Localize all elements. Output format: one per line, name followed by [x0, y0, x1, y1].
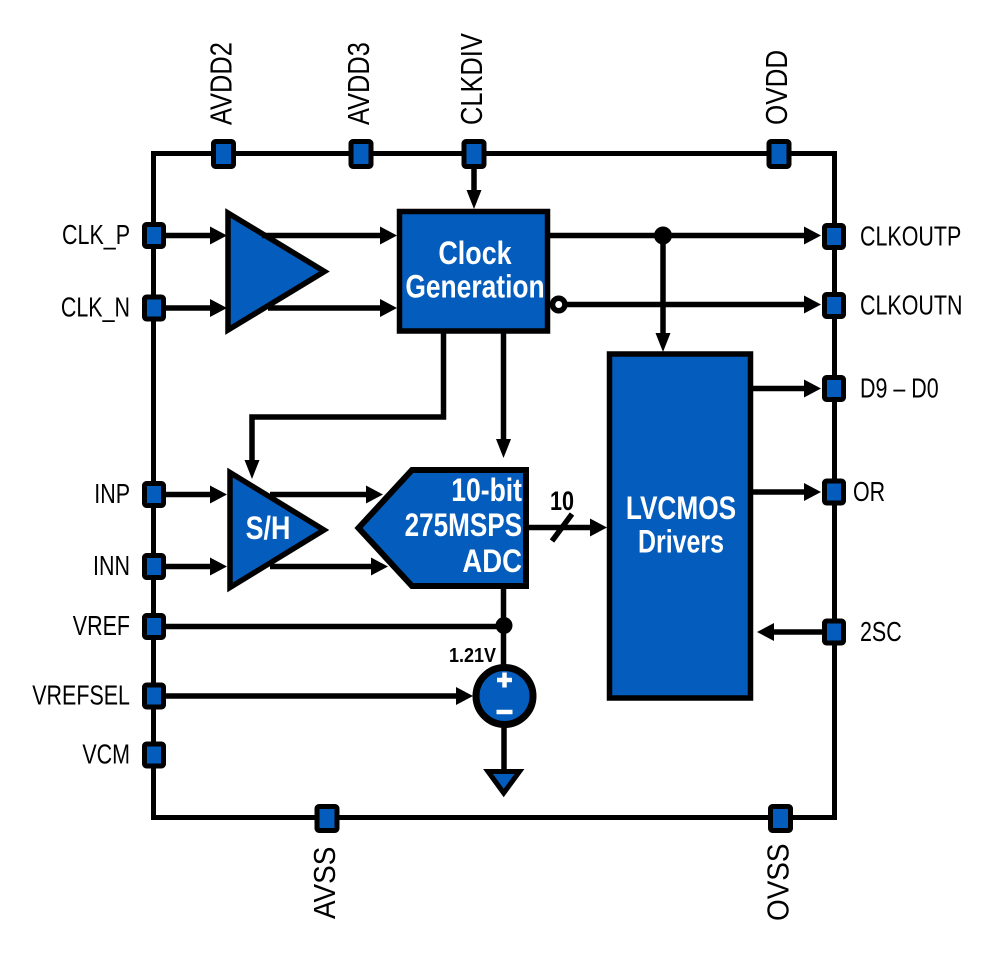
- S/H amplifier triangle: [230, 473, 324, 588]
- label 275MSPS: [405, 509, 522, 544]
- block LVCMOS Drivers: [610, 354, 751, 698]
- label OR: [853, 478, 885, 508]
- svg-text:OR: OR: [853, 478, 885, 508]
- svg-text:VREF: VREF: [73, 612, 130, 642]
- label INP: [94, 480, 130, 510]
- junction dot VREF: [496, 617, 513, 634]
- wire S/H to ADC (lower): [270, 558, 388, 576]
- wire reference source to ground: [501, 725, 507, 772]
- svg-text:D9 – D0: D9 – D0: [860, 374, 939, 404]
- wire 2SC to LVCMOS: [757, 623, 822, 641]
- pin CLKOUTN: [825, 295, 844, 317]
- wire bubble to CLKOUTN: [567, 296, 821, 314]
- label 2SC: [860, 618, 902, 648]
- wire junction to LVCMOS drivers: [656, 236, 671, 353]
- label CLK_P: [62, 221, 130, 251]
- svg-text:VCM: VCM: [82, 740, 130, 770]
- label CLKOUTP: [860, 222, 961, 252]
- svg-text:OVSS: OVSS: [761, 843, 796, 921]
- svg-text:AVSS: AVSS: [308, 847, 343, 919]
- wire LVCMOS to D9-D0: [751, 380, 821, 398]
- label ADC: [462, 544, 522, 579]
- svg-text:10: 10: [550, 487, 574, 517]
- label 1.21V: [449, 645, 496, 667]
- junction dot CLKOUTP: [654, 227, 672, 245]
- minus sign: [497, 710, 513, 715]
- svg-text:Generation: Generation: [405, 269, 544, 305]
- pin AVSS: [317, 807, 337, 831]
- bus slash: [552, 514, 572, 541]
- label S/H: [246, 511, 291, 547]
- wire clock generation to ADC (right drop): [496, 333, 511, 458]
- label CLK_N: [61, 293, 130, 323]
- pin VREF: [145, 616, 164, 638]
- label VREF: [73, 612, 130, 642]
- label CLKDIV: [455, 33, 490, 125]
- label INN: [93, 552, 130, 582]
- block Clock Generation: [400, 212, 548, 332]
- wire buffer to clock generation (upper): [262, 227, 397, 245]
- label Generation: [405, 269, 544, 305]
- bus wire ADC to LVCMOS drivers: [524, 519, 607, 537]
- block 10-bit 275MSPS ADC (chevron): [359, 470, 527, 586]
- svg-text:Drivers: Drivers: [638, 525, 724, 561]
- label AVDD2: [204, 42, 239, 125]
- label LVCMOS: [626, 492, 736, 527]
- pin CLKOUTP: [825, 226, 844, 248]
- pin 2SC: [825, 621, 844, 643]
- label Drivers: [638, 525, 724, 561]
- label OVDD: [760, 50, 795, 125]
- inverter bubble on clock generation output: [553, 298, 565, 310]
- svg-text:10-bit: 10-bit: [451, 473, 522, 509]
- svg-text:2SC: 2SC: [860, 618, 902, 648]
- pin OVDD: [769, 142, 789, 167]
- wire ADC bottom to reference source: [501, 586, 507, 668]
- label Clock: [438, 236, 512, 272]
- wire buffer to clock generation (lower): [268, 299, 397, 317]
- wire CLKDIV into clock generation: [467, 156, 482, 209]
- pin OR: [825, 481, 844, 503]
- label 10 (bus width): [550, 487, 574, 517]
- plus sign: [497, 673, 512, 688]
- svg-text:CLKOUTN: CLKOUTN: [860, 291, 962, 321]
- label AVSS: [308, 847, 343, 919]
- svg-text:CLKDIV: CLKDIV: [455, 33, 490, 125]
- svg-text:VREFSEL: VREFSEL: [32, 681, 130, 711]
- ground symbol: [488, 772, 520, 794]
- pin AVDD3: [351, 142, 371, 167]
- svg-text:Clock: Clock: [438, 236, 512, 272]
- svg-text:S/H: S/H: [246, 511, 291, 547]
- wire INP to S/H: [166, 486, 227, 504]
- pin INP: [145, 484, 164, 506]
- label AVDD3: [342, 42, 377, 125]
- pin D9-D0: [825, 378, 844, 400]
- svg-text:INP: INP: [94, 480, 130, 510]
- label CLKOUTN: [860, 291, 962, 321]
- pin OVSS: [771, 807, 791, 831]
- svg-text:ADC: ADC: [462, 544, 522, 579]
- svg-text:CLK_N: CLK_N: [61, 293, 130, 323]
- clock input buffer amplifier: [228, 213, 325, 330]
- wire clock generation to S/H (left drop): [245, 333, 444, 479]
- svg-text:AVDD3: AVDD3: [342, 42, 377, 125]
- pin CLKDIV: [464, 142, 484, 167]
- label 10-bit: [451, 473, 522, 509]
- svg-text:INN: INN: [93, 552, 130, 582]
- pin INN: [145, 556, 164, 578]
- wire S/H to ADC (upper): [270, 486, 383, 504]
- pin VREFSEL: [145, 685, 164, 707]
- svg-text:OVDD: OVDD: [760, 50, 795, 125]
- chip boundary: [154, 154, 835, 818]
- wire clock generation to CLKOUTP: [550, 227, 821, 245]
- wire CLK_P to buffer: [166, 227, 227, 245]
- wire LVCMOS to OR: [751, 483, 821, 501]
- svg-text:CLKOUTP: CLKOUTP: [860, 222, 961, 252]
- pin AVDD2: [214, 142, 234, 167]
- voltage reference source 1.21V: [476, 668, 533, 725]
- label VCM: [82, 740, 130, 770]
- label VREFSEL: [32, 681, 130, 711]
- svg-text:LVCMOS: LVCMOS: [626, 492, 736, 527]
- wire VREF to reference node: [166, 624, 504, 630]
- svg-text:1.21V: 1.21V: [449, 645, 496, 667]
- svg-text:275MSPS: 275MSPS: [405, 509, 522, 544]
- pin VCM: [145, 744, 164, 766]
- pin CLK_N: [145, 297, 164, 319]
- wire INN to S/H: [166, 558, 227, 576]
- svg-text:CLK_P: CLK_P: [62, 221, 130, 251]
- wire CLK_N to buffer: [166, 299, 227, 317]
- pin CLK_P: [145, 225, 164, 247]
- wire VREFSEL to reference source: [166, 687, 473, 705]
- svg-text:AVDD2: AVDD2: [204, 42, 239, 125]
- label OVSS: [761, 843, 796, 921]
- label D9-D0: [860, 374, 939, 404]
